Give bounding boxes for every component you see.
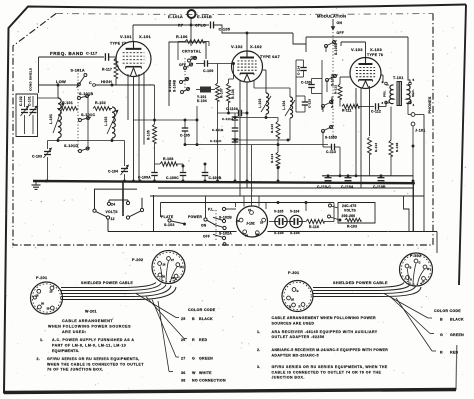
label COLOR CODE left	[188, 308, 216, 312]
svg-text:V-104: V-104	[290, 210, 300, 214]
wire V-103 plate top	[341, 42, 366, 58]
svg-text:C-104: C-104	[108, 170, 118, 174]
label LOW	[56, 79, 66, 84]
svg-text:C-106: C-106	[203, 69, 214, 73]
P-302 pin numbers	[410, 261, 431, 282]
phone jack J-101 sleeve	[411, 122, 415, 231]
P-201 pin numbers	[36, 290, 53, 311]
svg-text:R-114: R-114	[270, 154, 274, 163]
wire top right feed	[306, 37, 424, 232]
svg-text:C-101: C-101	[28, 96, 32, 106]
svg-text:R-116: R-116	[309, 225, 319, 229]
svg-text:GF/RU SERIES OR RU SERIES EQUI: GF/RU SERIES OR RU SERIES EQUIPMENTS, WH…	[272, 365, 388, 369]
svg-text:X-101: X-101	[139, 34, 151, 39]
lamp V-105 X-105	[274, 210, 287, 236]
left coil bottom wires	[58, 138, 112, 141]
svg-text:L-102: L-102	[104, 116, 108, 126]
connector P-201	[31, 282, 63, 314]
svg-text:R-108: R-108	[163, 157, 174, 161]
svg-text:TYPE 6A7: TYPE 6A7	[260, 55, 280, 59]
svg-text:25: 25	[181, 317, 186, 321]
callout line 26	[146, 297, 187, 339]
label X-103	[370, 47, 382, 52]
callout line 36	[158, 301, 173, 372]
wire bus end drop	[412, 182, 415, 232]
connector P-302	[400, 253, 433, 286]
switch S-101C	[79, 113, 96, 122]
svg-text:COLOR CODE: COLOR CODE	[434, 309, 461, 313]
J-102 pin numbers	[237, 208, 264, 238]
svg-text:S-105D: S-105D	[325, 136, 338, 140]
capacitor stack C-111A	[222, 113, 238, 121]
svg-text:26: 26	[36, 294, 39, 298]
label C terminal	[89, 81, 95, 86]
svg-text:NO CONNECTION: NO CONNECTION	[192, 379, 226, 383]
svg-text:V-101: V-101	[120, 34, 132, 39]
svg-text:S-105B: S-105B	[334, 42, 338, 55]
svg-text:C-109C: C-109C	[166, 176, 179, 180]
label 38 NO CONNECTION	[181, 379, 226, 383]
svg-text:SHIELDED POWER CABLE: SHIELDED POWER CABLE	[81, 281, 133, 285]
wire grid-cap V-101 to C-105	[133, 25, 209, 42]
callout line 27	[152, 300, 179, 358]
svg-text:C-111A: C-111A	[222, 117, 234, 121]
svg-text:GREEN: GREEN	[199, 357, 213, 361]
transformer T-101 primary	[381, 75, 394, 104]
capacitor C-108	[301, 79, 322, 94]
label P.L.	[208, 207, 236, 211]
label TYPE 6A7	[260, 55, 280, 59]
right note item 2	[257, 348, 388, 357]
left note item 1	[40, 338, 134, 353]
label TYPE 76	[367, 53, 383, 57]
capacitor C-110A	[341, 178, 354, 189]
svg-text:S-105C: S-105C	[330, 96, 334, 108]
resistor R-108	[155, 157, 185, 171]
svg-text:L-101: L-101	[49, 114, 53, 124]
svg-text:R: R	[192, 338, 195, 342]
label PRI	[383, 90, 387, 97]
svg-text:CABLE ARRANGEMENT: CABLE ARRANGEMENT	[62, 319, 113, 323]
chassis ground dash-dot border	[13, 14, 433, 246]
svg-text:JUNCTION BOX.: JUNCTION BOX.	[272, 375, 305, 379]
svg-text:PHONES: PHONES	[428, 96, 432, 113]
svg-text:ARA RECEIVER -46145 EQUIPPED: ARA RECEIVER -46145 EQUIPPED WITH AUXILI…	[272, 330, 378, 334]
svg-text:36: 36	[181, 371, 186, 375]
svg-text:24: 24	[111, 202, 115, 206]
svg-text:GREEN: GREEN	[450, 333, 464, 337]
wire second bus line	[322, 174, 414, 177]
svg-text:C: C	[89, 81, 92, 85]
svg-text:36: 36	[162, 275, 165, 279]
label MODULATION	[317, 14, 346, 19]
left shield label	[29, 67, 33, 91]
svg-text:CPLG: CPLG	[195, 24, 206, 28]
label SHIELDED POWER CABLE left	[81, 281, 133, 285]
label RF CPLG	[178, 24, 206, 28]
svg-text:26: 26	[163, 263, 166, 267]
wire coil junction row	[234, 139, 290, 142]
svg-text:PART OF LM-8, LM-9, LM-11, LM-: PART OF LM-8, LM-9, LM-11, LM-13	[52, 344, 126, 348]
variable capacitor C-104	[108, 141, 129, 182]
svg-text:E-101A: E-101A	[168, 14, 183, 19]
svg-text:C-114: C-114	[297, 66, 301, 75]
capacitor C-106	[196, 60, 232, 73]
svg-text:S-101D: S-101D	[64, 144, 78, 148]
label TYPE 77	[110, 42, 126, 46]
svg-text:G: G	[440, 333, 443, 337]
band switch linkage	[77, 70, 79, 152]
transformer T-101 core	[397, 81, 403, 106]
svg-text:4: 4	[413, 103, 415, 107]
svg-text:R-105: R-105	[147, 130, 151, 140]
wire mid long row	[185, 106, 328, 146]
wire mid-left row	[134, 119, 199, 122]
svg-text:L-103: L-103	[258, 98, 262, 108]
heater wire row third	[161, 201, 335, 204]
wire bottom coil row	[48, 139, 125, 142]
svg-text:36: 36	[245, 234, 248, 238]
svg-text:C-111C: C-111C	[210, 139, 222, 143]
svg-text:200-260: 200-260	[342, 214, 356, 218]
svg-text:ARE USED:: ARE USED:	[62, 330, 87, 334]
label 36 W WHITE	[181, 371, 212, 375]
ballast switch	[328, 204, 339, 220]
svg-text:3: 3	[382, 101, 384, 105]
svg-text:R-110: R-110	[270, 124, 274, 133]
switch S-102A	[213, 231, 232, 245]
svg-text:38: 38	[256, 233, 259, 237]
wire C-105 to V-102 grid	[214, 25, 294, 34]
heater wire row upper	[158, 187, 413, 189]
svg-text:COLOR CODE: COLOR CODE	[188, 308, 216, 312]
connector J-102	[237, 206, 268, 237]
svg-text:MODULATION: MODULATION	[317, 14, 346, 19]
svg-text:38: 38	[47, 307, 50, 311]
switch S-101B	[78, 92, 94, 100]
wire caps to bus	[153, 176, 206, 183]
right note heading	[272, 316, 376, 325]
svg-text:25: 25	[180, 265, 183, 269]
svg-text:CABLE IS CONNECTED TO OUTLET 7: CABLE IS CONNECTED TO OUTLET 74 OR 76 OF…	[272, 370, 382, 374]
svg-text:C-110A: C-110A	[226, 107, 239, 111]
svg-text:R-108: R-108	[395, 142, 399, 152]
svg-text:FREQ. BAND: FREQ. BAND	[50, 51, 84, 56]
svg-text:R: R	[299, 305, 301, 309]
tube V-101	[116, 42, 151, 77]
label COLOR CODE right	[434, 309, 461, 313]
svg-text:1.: 1.	[40, 338, 44, 342]
wires fuse row	[269, 221, 306, 223]
svg-text:P.L.: P.L.	[208, 207, 215, 211]
svg-text:R-113: R-113	[374, 143, 378, 152]
label PHONES	[428, 96, 432, 113]
wire T-101 pri coil stubs	[386, 85, 410, 103]
svg-text:SOURCES ARE USED: SOURCES ARE USED	[272, 321, 315, 325]
wire trimmer box to coil	[38, 97, 59, 99]
capacitor C-109B	[202, 163, 222, 180]
wire to modulation switch	[293, 33, 306, 52]
right note item 3	[257, 365, 388, 379]
wire freq band left	[39, 57, 105, 93]
svg-text:VOLTS: VOLTS	[344, 209, 357, 213]
svg-text:S-102A: S-102A	[219, 231, 232, 235]
svg-text:X-103: X-103	[370, 47, 382, 52]
coil L-104	[254, 80, 295, 140]
svg-text:GF/RU SERIES OR RU SERIES EQUI: GF/RU SERIES OR RU SERIES EQUIPMENTS,	[47, 357, 140, 361]
connector P-202	[152, 251, 185, 284]
label V-101	[120, 34, 132, 39]
T-101 pin numbers	[382, 78, 415, 107]
tube V-103	[350, 58, 381, 89]
svg-text:76 OF THE JUNCTION BOX.: 76 OF THE JUNCTION BOX.	[47, 368, 104, 372]
wire E-101 down to crystal network	[190, 18, 193, 46]
svg-text:L-104: L-104	[282, 100, 286, 110]
label T-101	[393, 76, 403, 80]
left note heading	[48, 319, 131, 334]
svg-text:RF: RF	[178, 24, 184, 28]
label P-302	[410, 254, 421, 258]
svg-text:5: 5	[413, 78, 415, 82]
variable capacitor C-102	[19, 96, 29, 134]
svg-text:S-102B: S-102B	[219, 216, 232, 220]
capacitor C-109A	[138, 171, 158, 180]
switch linkage S-102	[215, 210, 217, 240]
svg-text:RED: RED	[450, 351, 458, 355]
switch S-101D	[64, 144, 90, 153]
label V-102	[231, 44, 243, 49]
label W-201	[85, 310, 97, 314]
svg-text:24C-475: 24C-475	[342, 204, 356, 208]
svg-text:2.: 2.	[37, 357, 41, 361]
svg-text:ON: ON	[201, 223, 207, 227]
label X-101	[139, 34, 151, 39]
svg-text:G: G	[419, 261, 421, 265]
resistor R-114	[270, 138, 280, 182]
transformer T-101 secondary	[385, 82, 412, 104]
resistor R-118	[389, 107, 399, 176]
svg-text:G: G	[192, 357, 195, 361]
svg-text:3.: 3.	[257, 365, 260, 369]
svg-text:38: 38	[181, 379, 186, 383]
svg-text:V-103: V-103	[351, 47, 363, 52]
svg-text:R-107: R-107	[220, 88, 224, 98]
wire sec to phones	[408, 104, 411, 115]
svg-text:W: W	[192, 371, 196, 375]
coil L-102	[104, 107, 118, 138]
svg-text:PLATE: PLATE	[161, 215, 174, 219]
capacitor C-109C	[166, 171, 186, 181]
tube V-103 leads	[340, 77, 370, 188]
tube V-102 leads	[240, 36, 266, 197]
label SHIELDED POWER CABLE right	[333, 281, 388, 285]
modulation arrow	[331, 19, 344, 35]
wire middle cross	[218, 112, 249, 183]
svg-text:P-302: P-302	[410, 254, 421, 258]
label HIGH	[101, 79, 112, 84]
capacitor C-115	[296, 96, 312, 112]
svg-text:ON: ON	[337, 21, 343, 25]
svg-text:R-112: R-112	[334, 85, 338, 94]
resistor R-102	[93, 101, 110, 111]
callout line R	[396, 298, 436, 351]
svg-text:C-112: C-112	[371, 110, 381, 114]
capacitor C-114	[296, 60, 307, 77]
capacitor C-110B	[373, 178, 386, 189]
P-202 pin numbers	[162, 258, 183, 280]
volts switch frame	[95, 181, 143, 216]
svg-text:R: R	[410, 278, 412, 282]
svg-text:C-103: C-103	[32, 155, 42, 159]
svg-text:C-111B: C-111B	[212, 128, 224, 132]
svg-text:S-101B: S-101B	[79, 92, 93, 96]
svg-text:BLACK: BLACK	[450, 318, 464, 322]
label SEC	[411, 89, 415, 97]
tube V-101 leads	[128, 72, 144, 181]
svg-text:ADAPTER MX-20/ARC-5: ADAPTER MX-20/ARC-5	[272, 353, 319, 357]
svg-text:EQUIPMENTS.: EQUIPMENTS.	[52, 349, 80, 353]
coil L-103	[258, 70, 271, 118]
capacitor C-110A mid	[226, 107, 247, 116]
svg-text:J-101: J-101	[415, 129, 425, 133]
svg-text:P-301: P-301	[288, 271, 299, 275]
svg-text:R-106: R-106	[176, 35, 188, 39]
svg-text:COND SHIELD: COND SHIELD	[29, 67, 33, 91]
svg-text:CRYSTAL: CRYSTAL	[182, 50, 202, 54]
svg-text:ANB/ARC-5 RECEIVER M-24/ARC-5: ANB/ARC-5 RECEIVER M-24/ARC-5 EQUIPPED W…	[272, 348, 389, 352]
svg-text:C-117: C-117	[86, 52, 97, 56]
phone jack J-101 tip	[411, 113, 424, 117]
crystal switch S-104	[179, 56, 197, 70]
svg-text:26: 26	[291, 298, 294, 302]
wire L103 row	[234, 116, 278, 119]
ballast resistor	[339, 218, 361, 222]
svg-text:POWER: POWER	[188, 215, 202, 219]
svg-text:X-102: X-102	[250, 44, 262, 49]
svg-text:K-104: K-104	[197, 99, 207, 103]
svg-text:T-101: T-101	[393, 76, 403, 80]
callout line G	[390, 297, 434, 334]
wire volts switch bottom	[107, 219, 109, 232]
svg-text:2: 2	[382, 80, 384, 84]
ground symbol	[32, 181, 41, 189]
svg-text:OFF: OFF	[337, 31, 345, 35]
wire box right side	[423, 115, 425, 197]
capacitor C-110C	[317, 178, 332, 189]
svg-text:PRI.: PRI.	[383, 90, 387, 97]
crystal section box	[169, 42, 206, 106]
ballast box R-103	[338, 196, 409, 232]
svg-text:OUTLET ADAPTER -62256: OUTLET ADAPTER -62256	[272, 335, 325, 339]
switch S-104A S-104B	[168, 78, 190, 94]
tube V-102	[232, 51, 263, 82]
heater wire row lower	[150, 195, 424, 197]
plate section box edge	[153, 195, 155, 232]
svg-text:J-102: J-102	[246, 222, 255, 226]
capacitor stack C-111B	[212, 120, 238, 132]
resistor R-110	[270, 118, 280, 139]
svg-text:1.: 1.	[257, 330, 260, 334]
label FREQ. BAND	[50, 51, 84, 56]
svg-text:SEC.: SEC.	[411, 89, 415, 97]
switch S-105B	[325, 41, 339, 56]
resistor R-105	[147, 85, 157, 171]
svg-text:G: G	[297, 289, 299, 293]
svg-text:16: 16	[260, 221, 263, 225]
resistor R-112	[334, 77, 343, 107]
terminal E-101 RF CPLG jack	[188, 10, 196, 18]
svg-text:X-104: X-104	[290, 231, 300, 235]
resistor R-104	[227, 62, 235, 113]
wire HIGH row	[96, 79, 155, 87]
label E-101B	[197, 14, 212, 19]
volts switch contacts	[93, 201, 144, 219]
svg-text:B: B	[289, 305, 291, 309]
svg-text:R-103: R-103	[347, 225, 357, 229]
label 25 B BLACK	[181, 317, 213, 321]
svg-text:W-201: W-201	[85, 310, 97, 314]
crystal Y-101	[196, 87, 215, 104]
label E-101A	[168, 14, 183, 19]
modulation switch linkage	[332, 32, 334, 140]
svg-text:WHEN FOLLOWING POWER SOURCES: WHEN FOLLOWING POWER SOURCES	[48, 325, 131, 329]
svg-text:S-104A: S-104A	[168, 79, 172, 92]
svg-text:A.C. POWER SUPPLY FURNISHED AS: A.C. POWER SUPPLY FURNISHED AS A	[52, 338, 134, 342]
svg-text:C-102: C-102	[19, 96, 23, 106]
label X-102	[250, 44, 262, 49]
label G GREEN	[440, 333, 464, 337]
cable bundle right	[313, 283, 421, 297]
capacitor C-112	[371, 101, 386, 114]
wire mid right verticals	[296, 60, 322, 112]
svg-text:12: 12	[111, 217, 115, 221]
ballast text	[342, 204, 358, 229]
resistor R-116	[306, 203, 334, 230]
svg-text:B: B	[192, 317, 195, 321]
svg-text:TYPE 77: TYPE 77	[110, 42, 126, 46]
wire T-101 pri bottom	[385, 101, 387, 107]
variable capacitor C-103	[32, 141, 52, 182]
label B BLACK	[440, 318, 464, 322]
svg-text:27: 27	[181, 357, 186, 361]
svg-text:RED: RED	[199, 338, 207, 342]
right note item 1	[257, 330, 378, 339]
svg-text:BLACK: BLACK	[199, 317, 213, 321]
switch POWER	[188, 196, 216, 239]
svg-text:R: R	[440, 351, 443, 355]
capacitor C-117	[86, 52, 109, 61]
label 27 G GREEN	[181, 357, 213, 361]
svg-text:OFF: OFF	[203, 235, 210, 239]
svg-text:27: 27	[171, 258, 174, 262]
resistor R-106	[176, 35, 209, 60]
svg-text:V-102: V-102	[231, 44, 243, 49]
lamp V-104 X-104	[290, 210, 302, 236]
svg-text:WHEN THE CABLE IS CONNECTED TO: WHEN THE CABLE IS CONNECTED TO OUTLET	[47, 362, 144, 366]
svg-text:SHIELDED POWER CABLE: SHIELDED POWER CABLE	[333, 281, 388, 285]
left note item 2	[37, 357, 145, 372]
svg-text:C-105: C-105	[219, 28, 231, 32]
svg-text:B: B	[410, 266, 412, 270]
capacitor C-105	[211, 22, 231, 32]
capacitor stack C-111C	[210, 131, 238, 182]
capacitor C-105 mid	[180, 120, 190, 146]
resistor R-101	[60, 101, 77, 111]
svg-text:26: 26	[181, 338, 186, 342]
coil L-101	[49, 85, 64, 138]
label CRYSTAL	[182, 50, 202, 54]
svg-text:CABLE ARRANGEMENT WHEN FOLLOWI: CABLE ARRANGEMENT WHEN FOLLOWING POWER	[272, 316, 376, 320]
